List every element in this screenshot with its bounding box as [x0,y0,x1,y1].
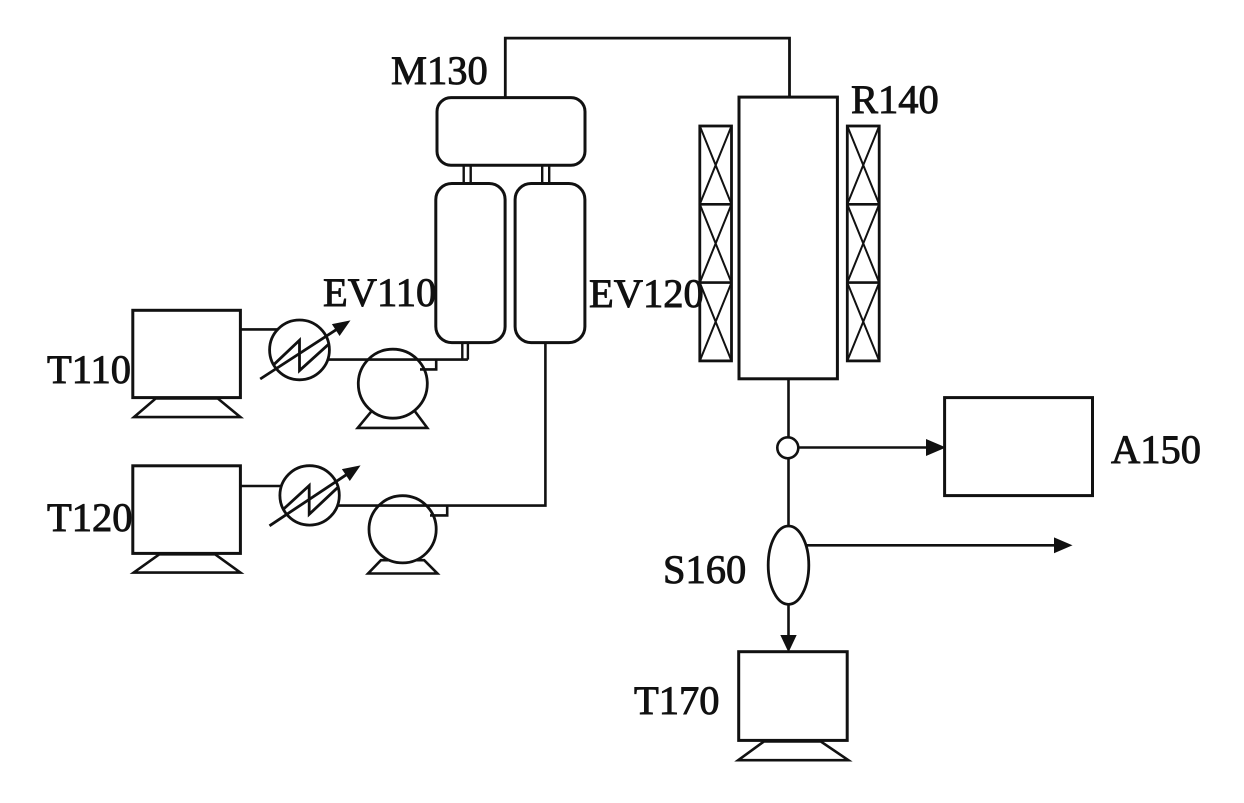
wire T120 to exchanger E2 [240,485,282,488]
wire exchanger1 to pump1 to EV110 [327,358,468,361]
heat exchanger E2 zigzag [284,486,338,515]
heat exchanger E2 arrow [270,474,348,526]
tank T170 [739,652,848,741]
pump P2 discharge tab [430,506,447,516]
wire stub M130 to EV110 vessel [464,165,471,184]
tank T170 base trapezoid [738,741,848,760]
svg-text:T170: T170 [634,678,720,723]
pump P1 [358,349,427,418]
wire arrow node to A150 [798,446,928,449]
vessel EV120 [515,184,585,343]
tank T110 [133,310,241,397]
svg-text:EV120: EV120 [589,271,704,316]
node junction circle [777,437,798,458]
svg-text:S160: S160 [663,547,746,592]
svg-text:R140: R140 [851,77,939,122]
wire top recycle pipe M130 to R140 [505,38,789,98]
vessel EV110 [436,184,505,343]
tank T120 base trapezoid [134,554,241,572]
svg-text:A150: A150 [1111,427,1201,472]
wire stub EV110 bottom outlet [462,343,468,360]
wire T110 to exchanger EV110 [240,328,279,331]
R140 right heater column [847,126,879,361]
svg-text:T110: T110 [47,347,131,392]
R140 left heater column [700,126,732,361]
mixer M130 [437,98,585,166]
box A150 [945,398,1093,496]
heat exchanger E1 arrow [260,329,337,379]
separator S160 ellipse [768,526,809,604]
heat exchanger E2 [280,466,339,525]
wire exchanger2 to pump2 to EV120 [337,343,545,506]
wire R140 bottom outlet down to S160 [787,379,790,636]
pump P2 base [368,560,437,573]
heat exchanger E1 zigzag [273,340,329,370]
pump P1 discharge tab [420,360,436,370]
pump P1 base [358,410,428,428]
pump P2 [369,496,436,563]
wire arrow S160 to right [806,544,1055,547]
tank T120 [133,466,241,554]
heat exchanger E1 [270,320,330,380]
wire arrow S160 down to T170 [781,636,796,652]
svg-text:EV110: EV110 [323,270,436,315]
tank T110 base trapezoid [134,398,240,417]
wire stub M130 to EV120 vessel [542,165,549,184]
svg-text:T120: T120 [47,495,133,540]
svg-text:M130: M130 [391,48,488,93]
reactor R140 [739,97,837,379]
